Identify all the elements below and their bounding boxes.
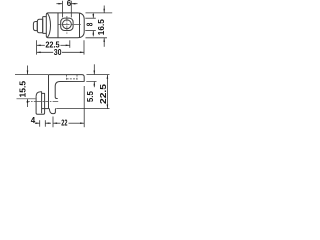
svg-text:8: 8 [86,22,95,26]
svg-text:22.5: 22.5 [99,83,108,104]
svg-text:4: 4 [31,116,36,125]
svg-text:5.5: 5.5 [86,91,95,103]
svg-text:16.5: 16.5 [97,19,106,36]
svg-text:6: 6 [67,0,72,8]
svg-text:15.5: 15.5 [18,80,27,97]
svg-text:22: 22 [61,119,68,128]
svg-text:30: 30 [54,48,62,57]
